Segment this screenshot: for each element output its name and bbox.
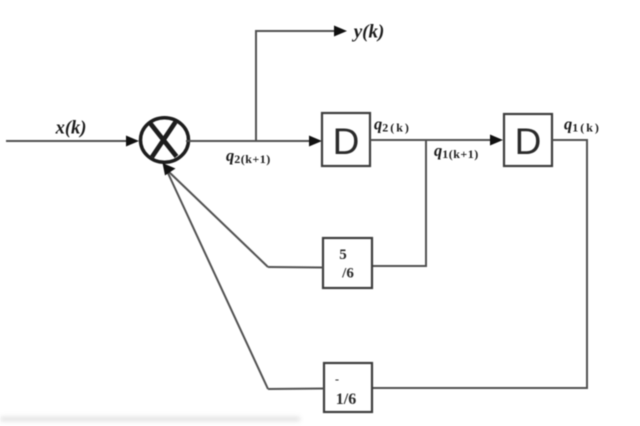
wire node to D1 [186,140,314,142]
bottom edge scan smudge [0,417,300,421]
arrowhead into D1 [309,136,322,147]
wire branch up to y(k) [256,31,337,140]
svg-text:1/6: 1/6 [336,391,356,408]
svg-text:q2(k): q2(k) [374,115,411,135]
wire D2 output down to 1/6 block [372,140,587,388]
wire branch down to 5/6 block [372,140,426,266]
wire diagonal 5/6 to node [169,172,268,267]
gain block 5/6 [323,238,372,288]
arrowhead to y(k) [334,26,347,37]
svg-text:5: 5 [339,247,347,263]
svg-text:D: D [515,121,542,162]
svg-text:/6: /6 [341,266,354,282]
arrowhead into D2 [490,135,503,146]
svg-text:x(k): x(k) [55,119,87,139]
svg-text:D: D [333,121,360,162]
wire D1 to D2 [370,139,494,141]
svg-text:q2(k+1): q2(k+1) [226,146,271,166]
svg-text:y(k): y(k) [352,22,385,43]
gain block 1/6 [324,363,372,412]
arrowhead into summing node [126,136,139,147]
svg-text:q1(k+1): q1(k+1) [434,141,479,161]
delay block D2 [504,114,552,166]
svg-text:-: - [335,372,339,386]
wire input x(k) [6,140,131,142]
arrowhead feedback into node [163,163,176,176]
delay block D1 [322,113,370,166]
wire 1/6 output left [268,388,324,391]
wire diagonal 1/6 to node [167,171,268,389]
multiplier node X (summing junction) [141,118,189,163]
svg-text:q1(k): q1(k) [564,115,601,135]
wire 5/6 output left [268,266,323,269]
